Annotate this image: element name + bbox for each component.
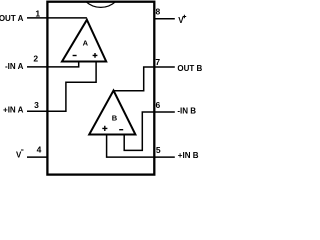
wire pin8 V+ supply	[154, 18, 175, 20]
op-amp A minus sign	[73, 55, 77, 57]
op-amp B plus sign	[102, 126, 107, 131]
svg-text:6: 6	[156, 100, 161, 110]
wire pin2 -IN A to op-amp A inverting input	[27, 61, 79, 67]
svg-text:V: V	[178, 16, 184, 25]
svg-text:-IN B: -IN B	[177, 107, 196, 116]
svg-text:7: 7	[155, 57, 160, 67]
wire pin4 V- supply	[27, 156, 47, 158]
svg-text:2: 2	[33, 54, 38, 64]
wire pin5 +IN B to op-amp B non-inverting input	[107, 134, 175, 158]
svg-text:+IN A: +IN A	[3, 105, 24, 114]
wire pin7 OUT B to op-amp B output	[114, 67, 175, 91]
wire pin1 OUT A to op-amp A output	[27, 17, 87, 19]
svg-text:OUT B: OUT B	[177, 64, 202, 73]
svg-text:A: A	[83, 38, 89, 47]
svg-text:V: V	[16, 151, 22, 160]
op-amp B minus sign	[119, 129, 123, 131]
pin-1 index notch	[86, 2, 116, 8]
IC package U1 (8-pin DIP outline)	[47, 2, 154, 175]
wire pin3 +IN A to op-amp A non-inverting input	[27, 61, 96, 112]
svg-text:8: 8	[156, 6, 161, 16]
svg-text:4: 4	[37, 145, 42, 155]
svg-text:+IN B: +IN B	[178, 151, 199, 160]
svg-text:OUT A: OUT A	[0, 14, 24, 23]
svg-text:3: 3	[34, 100, 39, 110]
wire pin6 -IN B to op-amp B inverting input	[124, 112, 175, 150]
op-amp A plus sign	[93, 53, 98, 58]
svg-text:5: 5	[156, 145, 161, 155]
op-amp B triangle	[89, 91, 135, 135]
svg-text:-IN A: -IN A	[5, 62, 24, 71]
svg-text:B: B	[112, 113, 118, 122]
op-amp A triangle	[62, 20, 106, 62]
svg-text:1: 1	[35, 8, 40, 18]
